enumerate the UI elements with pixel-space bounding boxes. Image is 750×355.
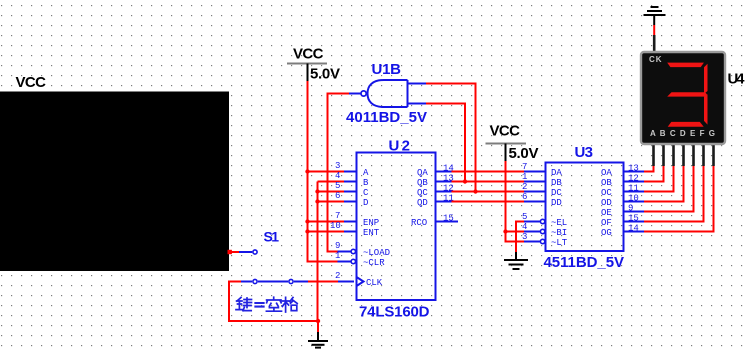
U2 chip body 74LS160D	[357, 153, 436, 301]
svg-text:ENP: ENP	[363, 218, 379, 228]
U3 pin numbers	[522, 162, 639, 242]
svg-text:QB: QB	[417, 178, 428, 188]
svg-text:S1: S1	[264, 229, 280, 245]
wire junction up through CLK row (to B/C/D tie line)	[317, 182, 319, 322]
junction VCC2/ENT	[305, 229, 309, 233]
U3 pin names	[551, 168, 612, 248]
=	[255, 303, 263, 307]
U2 CLK triangle	[357, 277, 364, 286]
ground (switch)	[308, 332, 328, 348]
svg-text:OD: OD	[601, 198, 612, 208]
svg-text:CLK: CLK	[366, 278, 383, 288]
segment C (bottom right)	[704, 94, 708, 124]
svg-text:4: 4	[522, 222, 527, 232]
svg-text:9: 9	[628, 204, 633, 214]
segment A (top)	[667, 63, 704, 68]
svg-text:6: 6	[335, 191, 340, 201]
svg-text:B: B	[363, 178, 369, 188]
svg-text:15: 15	[628, 214, 639, 224]
U3 pin stubs right	[624, 172, 645, 232]
svg-text:RCO: RCO	[411, 218, 427, 228]
label 键 = 空格 (hand-drawn CJK strokes)	[236, 297, 297, 312]
svg-text:A: A	[363, 168, 369, 178]
wire black box to S1 top terminal	[228, 250, 253, 254]
display U4 body	[641, 52, 725, 144]
svg-text:7: 7	[335, 211, 340, 221]
svg-text:14: 14	[628, 224, 639, 234]
svg-text:1: 1	[522, 172, 527, 182]
svg-text:DD: DD	[551, 198, 562, 208]
svg-text:OB: OB	[601, 178, 612, 188]
wire ~EL to ground	[516, 222, 540, 253]
U2 pin stubs left	[338, 172, 357, 264]
junction switch/ground	[316, 319, 320, 323]
power VCC2 (above U1B, feeds U2)	[287, 46, 340, 83]
svg-text:U2: U2	[389, 138, 411, 155]
svg-text:OC: OC	[601, 188, 612, 198]
svg-text:QD: QD	[417, 198, 428, 208]
segment G (middle)	[667, 92, 707, 96]
svg-text:1: 1	[335, 251, 340, 261]
svg-text:2: 2	[522, 182, 527, 192]
svg-text:5.0V: 5.0V	[509, 145, 539, 162]
键	[236, 298, 252, 311]
svg-text:10: 10	[330, 221, 341, 231]
wire VCC3 down to ~BI / ~LT	[506, 161, 541, 242]
svg-text:CK: CK	[649, 55, 663, 64]
svg-text:13: 13	[628, 164, 639, 174]
svg-text:7: 7	[522, 162, 527, 172]
display U4 bottom pins	[654, 144, 714, 166]
wire S1 lower-left terminal loop to ground junction	[229, 282, 318, 322]
junction VCC2/ENP	[305, 219, 309, 223]
svg-text:9: 9	[335, 241, 340, 251]
display U4 top pin + red wire + inverted ground	[653, 15, 656, 52]
格	[282, 297, 297, 312]
segment D (bottom)	[668, 122, 704, 127]
svg-text:10: 10	[628, 194, 639, 204]
svg-text:2: 2	[335, 271, 340, 281]
power VCC3 (above U3)	[486, 123, 539, 163]
svg-text:~BI: ~BI	[551, 228, 567, 238]
svg-text:4: 4	[335, 171, 340, 181]
wires U3 outputs to display pins	[644, 163, 714, 232]
wires U2 QA-QD to U3 DA-DD	[452, 172, 525, 202]
svg-text:OE: OE	[601, 208, 612, 218]
U2 pin names	[363, 168, 428, 288]
svg-text:~LOAD: ~LOAD	[363, 248, 390, 258]
wire VCC2 down to A/ENP/ENT/~CLR of U2	[308, 81, 345, 262]
svg-text:QA: QA	[417, 168, 428, 178]
svg-text:U4: U4	[728, 71, 746, 88]
svg-text:~LT: ~LT	[551, 238, 568, 248]
svg-text:DB: DB	[551, 178, 562, 188]
svg-text:VCC: VCC	[293, 46, 324, 63]
svg-text:OG: OG	[601, 228, 612, 238]
svg-text:12: 12	[628, 174, 639, 184]
U3 pin stubs left	[524, 172, 546, 244]
junction B-line/C	[315, 189, 319, 193]
junction VCC2/A	[305, 169, 309, 173]
svg-text:QC: QC	[417, 188, 428, 198]
U3 chip body 4511BD_5V	[546, 163, 624, 252]
svg-text:DC: DC	[551, 188, 562, 198]
switch S1	[241, 250, 293, 284]
svg-text:3: 3	[335, 161, 340, 171]
svg-text:OA: OA	[601, 168, 612, 178]
svg-text:ENT: ENT	[363, 228, 380, 238]
svg-text:OF: OF	[601, 218, 612, 228]
svg-text:4511BD_5V: 4511BD_5V	[544, 254, 625, 271]
segment B (top right)	[704, 64, 708, 94]
wire ground stem	[317, 321, 319, 332]
svg-text:5: 5	[522, 212, 527, 222]
wire U1B output to ~LOAD	[328, 94, 350, 252]
svg-text:~CLR: ~CLR	[363, 258, 385, 268]
空	[266, 297, 281, 311]
svg-text:15: 15	[443, 214, 454, 224]
svg-text:3: 3	[522, 232, 527, 242]
svg-text:D: D	[363, 198, 368, 208]
junction VCC3/~BI	[503, 229, 507, 233]
wire U1B top input to QC row	[426, 84, 478, 194]
svg-text:DA: DA	[551, 168, 562, 178]
wire U1B bottom input to QB row	[426, 104, 467, 184]
ground (inverted, above display)	[644, 7, 666, 15]
svg-text:5: 5	[335, 181, 340, 191]
svg-text:A B C D E F G: A B C D E F G	[650, 129, 715, 138]
svg-text:74LS160D: 74LS160D	[359, 304, 430, 321]
svg-text:~EL: ~EL	[551, 218, 567, 228]
svg-text:U3: U3	[575, 144, 594, 161]
svg-text:11: 11	[628, 184, 639, 194]
svg-text:4011BD_5V: 4011BD_5V	[346, 109, 427, 126]
ground (U3 ~EL)	[504, 252, 528, 269]
U2 pin numbers	[330, 161, 454, 281]
svg-text:5.0V: 5.0V	[310, 66, 340, 83]
svg-text:VCC: VCC	[490, 123, 521, 140]
op-amp gate U1B (mirrored NAND)	[349, 80, 426, 107]
svg-text:U1B: U1B	[372, 61, 402, 78]
black rectangle overlay	[0, 92, 229, 272]
svg-text:6: 6	[522, 192, 527, 202]
U2 pin stubs right	[436, 172, 459, 222]
wire S1 right terminal to U2 CLK pin	[294, 281, 354, 283]
junction B-line/D	[315, 199, 319, 203]
wire B/C/D tie to ground line	[318, 182, 345, 202]
svg-text:VCC: VCC	[16, 74, 47, 91]
svg-text:C: C	[363, 188, 369, 198]
